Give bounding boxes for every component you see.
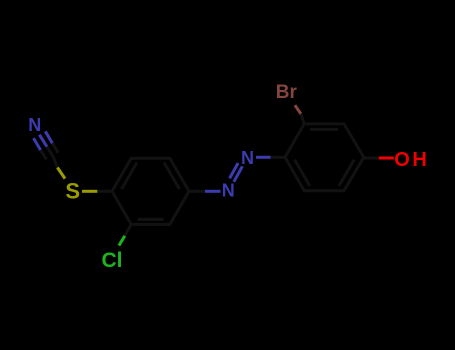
svg-text:Cl: Cl [102, 249, 123, 272]
svg-text:H: H [412, 149, 426, 171]
svg-text:S: S [65, 178, 80, 203]
svg-text:N: N [241, 148, 254, 168]
svg-text:Br: Br [276, 82, 298, 103]
svg-text:N: N [222, 181, 235, 201]
svg-text:O: O [394, 149, 410, 171]
svg-text:N: N [28, 115, 41, 135]
